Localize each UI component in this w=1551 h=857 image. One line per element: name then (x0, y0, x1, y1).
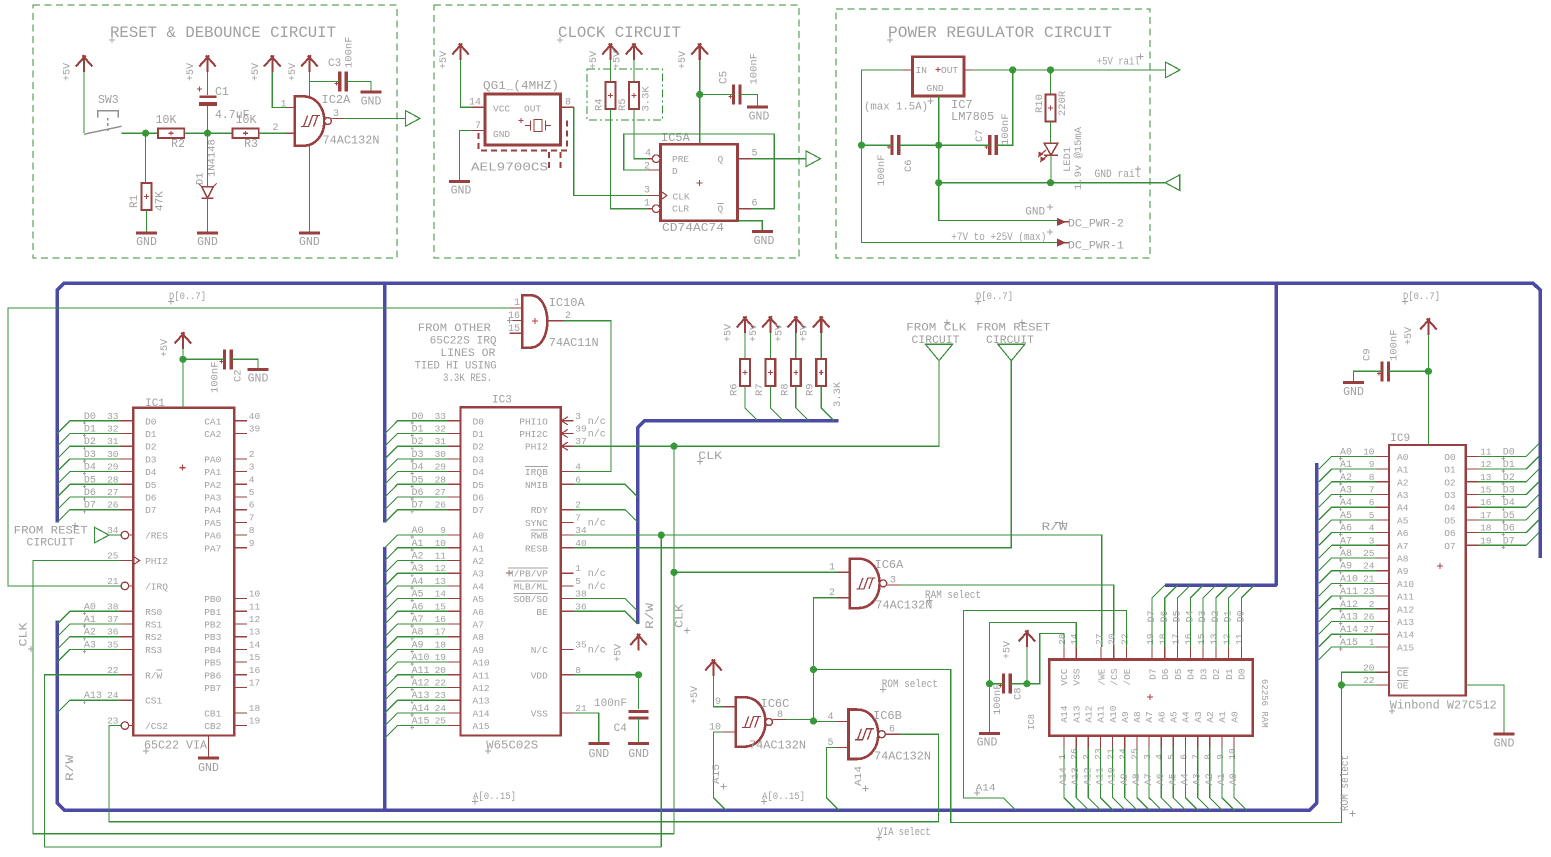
svg-text:26: 26 (435, 500, 447, 511)
svg-text:19: 19 (1145, 633, 1156, 645)
svg-text:D5: D5 (145, 480, 157, 491)
svg-text:3.3K: 3.3K (832, 381, 844, 407)
svg-text:A7: A7 (1144, 773, 1155, 785)
svg-text:A3: A3 (412, 564, 424, 575)
svg-text:/OE: /OE (1122, 668, 1133, 685)
svg-text:A13: A13 (1071, 705, 1082, 722)
svg-text:32: 32 (435, 424, 447, 435)
pin 5 Q stub (738, 158, 751, 160)
svg-text:2: 2 (272, 123, 278, 134)
svg-text:CLK: CLK (673, 191, 690, 202)
ic10a pin 2 output stub (547, 320, 563, 322)
svg-text:CB1: CB1 (204, 708, 221, 719)
svg-text:D1: D1 (1503, 460, 1515, 471)
svg-text:D7: D7 (84, 501, 96, 512)
svg-text:A9: A9 (1340, 562, 1352, 573)
svg-text:LINES OR: LINES OR (440, 348, 495, 360)
svg-text:A10: A10 (412, 653, 430, 664)
svg-text:CIRCUIT: CIRCUIT (912, 335, 960, 347)
svg-text:35: 35 (107, 639, 119, 650)
svg-text:A14: A14 (1059, 705, 1070, 722)
svg-text:20: 20 (1363, 662, 1375, 673)
diode D1 1N4148 (207, 133, 209, 186)
svg-text:/CS2: /CS2 (145, 721, 168, 732)
svg-text:A9: A9 (473, 645, 485, 656)
wire IC8 VSS to GND (990, 622, 1077, 683)
svg-text:C6: C6 (903, 159, 915, 172)
wire A14 net to RAM /OE (964, 610, 1127, 810)
wire +5V to R4 (610, 60, 612, 82)
svg-text:+5V: +5V (678, 51, 689, 69)
svg-text:21: 21 (107, 576, 119, 587)
svg-text:GND: GND (588, 748, 609, 761)
ic10a pin 1 stub (510, 307, 523, 309)
svg-text:A9: A9 (1120, 773, 1131, 785)
svg-text:CIRCUIT: CIRCUIT (27, 538, 75, 550)
wires IC1 data D0-D7 to bus (57, 412, 120, 523)
nand gate IC6B 74AC132N (849, 710, 879, 760)
svg-text:28: 28 (1057, 633, 1068, 645)
svg-text:C1: C1 (215, 86, 229, 99)
svg-text:D1: D1 (195, 172, 207, 185)
junction IC9 vcc (1425, 368, 1432, 375)
svg-text:D[0..7]: D[0..7] (169, 291, 206, 303)
svg-text:A12: A12 (1397, 604, 1414, 615)
svg-text:A10: A10 (1340, 574, 1358, 585)
svg-text:R9: R9 (805, 383, 817, 396)
svg-text:R1: R1 (129, 194, 141, 208)
svg-text:PHI1O: PHI1O (519, 416, 548, 427)
wires IC1 address RS0-RS3 to bus (57, 602, 120, 662)
svg-text:+5V: +5V (749, 324, 760, 342)
svg-text:19: 19 (435, 652, 447, 663)
svg-text:D1: D1 (412, 425, 424, 436)
svg-text:CA2: CA2 (204, 429, 221, 440)
svg-text:10K: 10K (156, 114, 177, 127)
svg-text:A13: A13 (1071, 767, 1082, 785)
svg-text:A0: A0 (1229, 773, 1240, 785)
svg-text:+7V to +25V (max): +7V to +25V (max) (951, 232, 1046, 244)
wire C9 right to node (1389, 370, 1429, 372)
ic IC9 CE pin (1376, 671, 1389, 673)
svg-text:PRE: PRE (672, 154, 689, 165)
svg-text:D5: D5 (1503, 511, 1515, 522)
svg-text:A6: A6 (412, 602, 424, 613)
wire C1 to node (207, 106, 209, 133)
svg-text:A3: A3 (84, 640, 96, 651)
wire pin4 from junction (813, 720, 835, 722)
svg-text:D4: D4 (1185, 610, 1196, 622)
svg-text:15: 15 (1480, 485, 1492, 496)
svg-text:PA0: PA0 (204, 454, 221, 465)
svg-text:D0: D0 (1236, 610, 1247, 622)
svg-text:27: 27 (107, 487, 118, 498)
svg-text:A6: A6 (1397, 528, 1409, 539)
ic IC3 right pins (508, 411, 606, 720)
svg-text:A2: A2 (1340, 473, 1352, 484)
dashed package outline QG1 (479, 119, 568, 170)
svg-text:100nF: 100nF (1389, 329, 1401, 361)
svg-text:38: 38 (575, 589, 587, 600)
svg-text:D4: D4 (145, 467, 157, 478)
junction gnd node (C6/C7 row) (935, 142, 942, 149)
wire gate output to flag (344, 117, 406, 119)
pin 8 stub (561, 106, 574, 108)
wire PHI2 CLK long (33, 561, 674, 834)
svg-text:6: 6 (752, 199, 758, 210)
flag GND rail (1165, 175, 1180, 191)
wire vcc node to C2 (183, 358, 225, 360)
svg-text:10: 10 (1363, 446, 1375, 457)
svg-text:17: 17 (1480, 510, 1491, 521)
wire SOB/SO to bus (574, 599, 638, 612)
svg-text:A0: A0 (84, 602, 96, 613)
svg-text:8: 8 (565, 98, 571, 109)
svg-text:O6: O6 (1444, 528, 1456, 539)
svg-text:11: 11 (435, 551, 447, 562)
svg-text:1: 1 (514, 298, 520, 309)
wire CS1 A13 to bus (57, 700, 120, 713)
svg-text:D0: D0 (412, 412, 424, 423)
svg-text:A3: A3 (1340, 486, 1352, 497)
svg-text:PB0: PB0 (204, 594, 221, 605)
svg-text:IC8: IC8 (1027, 714, 1037, 730)
svg-text:n/c: n/c (588, 416, 606, 428)
svg-text:100nF: 100nF (876, 154, 888, 186)
svg-text:18: 18 (1158, 633, 1169, 645)
svg-text:IC6A: IC6A (875, 558, 905, 572)
svg-text:6: 6 (1178, 754, 1189, 760)
svg-text:74AC132N: 74AC132N (875, 599, 932, 613)
wire VSS to GND (574, 713, 599, 742)
svg-text:W65C02S: W65C02S (486, 739, 538, 753)
svg-text:VCC: VCC (493, 104, 510, 115)
wires IC3 A0-A15 to bus (385, 526, 448, 738)
svg-text:8: 8 (777, 710, 783, 721)
svg-text:1: 1 (644, 199, 650, 210)
svg-text:11: 11 (1234, 633, 1245, 645)
svg-text:+5V: +5V (589, 51, 600, 69)
svg-text:A5: A5 (473, 594, 485, 605)
svg-text:15: 15 (508, 324, 520, 335)
svg-text:RS2: RS2 (145, 632, 162, 643)
wire R2 to C1 node (184, 132, 232, 134)
svg-text:GND rail: GND rail (1095, 169, 1141, 181)
svg-text:D4: D4 (1186, 668, 1197, 680)
svg-text:7: 7 (1191, 754, 1202, 760)
svg-text:R5: R5 (617, 98, 629, 111)
svg-text:n/c: n/c (588, 429, 606, 441)
svg-text:17: 17 (435, 627, 446, 638)
svg-text:D6: D6 (84, 488, 96, 499)
wire IC8 VCC to +5V node (1027, 634, 1064, 684)
svg-text:PA3: PA3 (204, 493, 221, 504)
svg-text:37: 37 (107, 614, 118, 625)
svg-text:D3: D3 (1198, 610, 1209, 622)
svg-text:A1: A1 (1340, 460, 1352, 471)
svg-text:PB5: PB5 (204, 658, 221, 669)
ic IC9 OE pin (1376, 684, 1389, 686)
svg-text:+5V: +5V (63, 63, 74, 81)
svg-text:40: 40 (575, 538, 587, 549)
svg-text:OUT: OUT (524, 104, 541, 115)
svg-text:+5V: +5V (724, 324, 735, 342)
svg-text:A[0..15]: A[0..15] (473, 791, 516, 803)
svg-text:R/W: R/W (145, 670, 162, 681)
svg-text:16: 16 (249, 665, 261, 676)
svg-text:VDD: VDD (531, 670, 548, 681)
svg-text:A6: A6 (473, 607, 485, 618)
pin 7 stub (472, 130, 485, 132)
svg-text:A1: A1 (412, 539, 424, 550)
svg-text:4: 4 (1369, 523, 1375, 534)
svg-text:RDY: RDY (531, 505, 548, 516)
svg-text:220R: 220R (1057, 90, 1069, 116)
svg-text:OUT: OUT (941, 65, 958, 76)
ic6b pin5 stub (836, 746, 849, 748)
svg-text:28: 28 (435, 474, 447, 485)
svg-text:A2: A2 (1205, 711, 1216, 723)
svg-text:6: 6 (889, 725, 895, 736)
svg-text:A8: A8 (412, 628, 424, 639)
svg-text:RS3: RS3 (145, 645, 162, 656)
bus IC3 left vertical A segment (383, 547, 387, 811)
svg-text:D7: D7 (1147, 669, 1158, 680)
svg-text:A14: A14 (1397, 630, 1414, 641)
svg-text:FROM OTHER: FROM OTHER (418, 323, 491, 335)
svg-text:R6: R6 (729, 383, 741, 396)
svg-text:RESET & DEBOUNCE CIRCUIT: RESET & DEBOUNCE CIRCUIT (110, 24, 336, 42)
svg-text:A8: A8 (473, 632, 485, 643)
svg-text:65C22S IRQ: 65C22S IRQ (430, 336, 497, 348)
power +5V arrow (pin1) (264, 55, 281, 72)
svg-text:R2: R2 (171, 138, 185, 151)
svg-text:23: 23 (1363, 586, 1375, 597)
ground (C3) (361, 91, 382, 94)
svg-text:26: 26 (1069, 748, 1080, 760)
wires IC9 address to bus (1319, 447, 1376, 659)
svg-text:34: 34 (575, 525, 587, 536)
ic6b pin4 stub (836, 720, 849, 722)
junction CLK branch (670, 443, 677, 450)
svg-text:A4: A4 (1397, 503, 1409, 514)
svg-text:C3: C3 (328, 58, 341, 70)
svg-text:D2: D2 (1211, 668, 1222, 680)
svg-text:A6: A6 (1340, 524, 1352, 535)
svg-text:+5V: +5V (774, 324, 785, 342)
ic IC1 R/W overline (157, 669, 163, 671)
svg-text:POWER REGULATOR CIRCUIT: POWER REGULATOR CIRCUIT (888, 24, 1112, 42)
svg-text:CS1: CS1 (145, 696, 162, 707)
flag +5V rail (1166, 62, 1181, 78)
svg-text:A12: A12 (1340, 600, 1358, 611)
svg-text:3: 3 (644, 186, 650, 197)
svg-text:A5: A5 (1168, 773, 1179, 785)
svg-text:3.3K: 3.3K (641, 86, 653, 112)
svg-text:N/C: N/C (531, 645, 548, 656)
wire +5V to IC5A top and C5 (699, 60, 701, 144)
svg-text:17: 17 (1170, 634, 1181, 645)
crystal symbol inside QG1 (525, 120, 551, 132)
ic6a pin1 stub (837, 571, 850, 573)
svg-text:15: 15 (435, 601, 447, 612)
svg-text:BE: BE (536, 607, 548, 618)
svg-text:15: 15 (249, 652, 261, 663)
ic6a pin3 stub (887, 584, 900, 586)
svg-text:2: 2 (1369, 599, 1375, 610)
wire C2 to GND (231, 359, 258, 368)
svg-text:39: 39 (249, 424, 261, 435)
svg-text:A13: A13 (412, 691, 430, 702)
frame: reset & debounce circuit box (33, 5, 397, 258)
wire BE to bus (574, 611, 638, 624)
junction C7 top (1009, 66, 1016, 73)
wire gate vcc to C3 (309, 80, 339, 82)
svg-text:A15: A15 (412, 717, 430, 728)
svg-text:27: 27 (1094, 634, 1105, 645)
svg-text:O2: O2 (1444, 477, 1456, 488)
svg-text:A11: A11 (473, 670, 490, 681)
wire rail to C6 (862, 144, 893, 146)
svg-text:A8: A8 (1132, 773, 1143, 785)
svg-text:4: 4 (645, 149, 651, 160)
ic6c pin8 stub (773, 718, 787, 720)
resistor R9 (820, 333, 822, 359)
ic6b pin6 stub (885, 733, 899, 735)
pin stub IN (903, 69, 913, 71)
svg-text:IRQB: IRQB (525, 467, 548, 478)
svg-text:D: D (672, 166, 678, 177)
svg-text:FROM RESET: FROM RESET (14, 526, 88, 538)
svg-text:D4: D4 (1503, 498, 1515, 509)
svg-text:A15: A15 (473, 721, 490, 732)
svg-text:22: 22 (1119, 633, 1130, 645)
and gate IC10A 74AC11N (522, 295, 547, 347)
capacitor C9 100nF (1382, 361, 1389, 381)
svg-text:A7: A7 (412, 615, 424, 626)
svg-text:R7: R7 (754, 383, 766, 396)
svg-text:23: 23 (107, 716, 119, 727)
svg-text:CLR: CLR (672, 204, 689, 215)
svg-text:24: 24 (107, 690, 119, 701)
wire IC1 gnd (208, 736, 210, 757)
svg-text:5: 5 (752, 149, 758, 160)
svg-text:D2: D2 (473, 442, 485, 453)
svg-text:30: 30 (435, 449, 447, 460)
svg-text:AEL9700CS: AEL9700CS (471, 161, 548, 175)
svg-text:D7: D7 (145, 505, 156, 516)
pin 3 CLK stub + clock mark (648, 195, 661, 197)
svg-text:25: 25 (435, 716, 447, 727)
svg-text:A10: A10 (1108, 705, 1119, 722)
svg-text:A4: A4 (412, 577, 424, 588)
resistor R1 47K (142, 183, 152, 210)
svg-text:1.9v @15mA: 1.9v @15mA (1073, 126, 1085, 190)
svg-text:R/W: R/W (645, 602, 657, 629)
svg-text:D1: D1 (145, 429, 157, 440)
junction CLK IC6A (670, 569, 677, 576)
wire node to C7 (939, 144, 990, 146)
svg-text:20: 20 (435, 665, 447, 676)
svg-text:O7: O7 (1444, 541, 1455, 552)
svg-text:28: 28 (107, 474, 119, 485)
svg-text:IC3: IC3 (492, 395, 512, 407)
svg-text:GND: GND (1343, 386, 1364, 399)
svg-text:PA2: PA2 (204, 480, 221, 491)
wire CLK vertical branch (673, 446, 675, 834)
svg-text:VIA select: VIA select (878, 827, 931, 839)
svg-text:Winbond W27C512: Winbond W27C512 (1390, 699, 1497, 713)
ic IC3 W65C02S body (461, 407, 561, 735)
svg-text:C8: C8 (1013, 687, 1025, 700)
nand gate IC6A 74AC132N (850, 559, 880, 609)
wire RDY to bus (574, 510, 638, 523)
svg-text:4: 4 (575, 462, 581, 473)
wire NMIB to bus (574, 484, 638, 497)
svg-text:C5: C5 (719, 71, 731, 84)
wire VDD to +5V and C4 (574, 675, 639, 709)
resistor R7 (769, 333, 771, 359)
svg-text:CIRCUIT: CIRCUIT (986, 335, 1034, 347)
resistor R5 3.3K (629, 82, 639, 109)
svg-text:A12: A12 (1084, 705, 1095, 722)
svg-text:D1: D1 (1224, 668, 1235, 680)
svg-text:+5V: +5V (613, 51, 624, 69)
power +5V arrow (IC6C pin9) (705, 659, 722, 676)
ic6a pin2 stub (837, 597, 850, 599)
svg-text:R4: R4 (594, 98, 606, 111)
svg-text:A0: A0 (1340, 447, 1352, 458)
svg-text:6: 6 (575, 474, 581, 485)
svg-text:PB2: PB2 (204, 620, 221, 631)
wire C4 to GND (638, 718, 640, 742)
svg-text:1: 1 (1369, 637, 1375, 648)
wire C8 right node (1010, 683, 1039, 685)
svg-text:A12: A12 (1083, 767, 1094, 785)
svg-text:9: 9 (249, 538, 255, 549)
svg-text:GND: GND (493, 129, 510, 140)
wire D feedback from Qbar (624, 134, 774, 209)
svg-text:3: 3 (890, 576, 896, 587)
svg-text:A6: A6 (1156, 773, 1167, 785)
svg-text:4: 4 (1154, 754, 1165, 760)
junction IC6C out (810, 717, 817, 724)
svg-text:74AC132N: 74AC132N (749, 739, 806, 753)
svg-text:/CS: /CS (1109, 668, 1120, 685)
svg-text:PA4: PA4 (204, 505, 221, 516)
svg-text:+5V: +5V (614, 644, 625, 662)
svg-text:7: 7 (249, 512, 255, 523)
svg-text:D1: D1 (1224, 610, 1235, 622)
wire C8 left to GND node (990, 683, 1004, 685)
svg-text:13: 13 (435, 576, 447, 587)
svg-text:R8: R8 (779, 383, 791, 396)
pin stub gate inputs (287, 107, 295, 109)
svg-text:7: 7 (1369, 485, 1375, 496)
svg-text:A10: A10 (473, 658, 490, 669)
svg-text:9: 9 (1215, 754, 1226, 760)
svg-text:D5: D5 (412, 475, 424, 486)
svg-text:3.3K RES.: 3.3K RES. (443, 373, 492, 385)
svg-text:8: 8 (1203, 754, 1214, 760)
svg-text:36: 36 (575, 601, 587, 612)
svg-text:A13: A13 (473, 696, 490, 707)
wires IC8 address pins to bottom bus (1059, 748, 1247, 810)
svg-text:A11: A11 (1096, 767, 1107, 785)
svg-text:SW3: SW3 (98, 94, 119, 107)
svg-text:8: 8 (575, 665, 581, 676)
svg-text:10: 10 (249, 589, 261, 600)
